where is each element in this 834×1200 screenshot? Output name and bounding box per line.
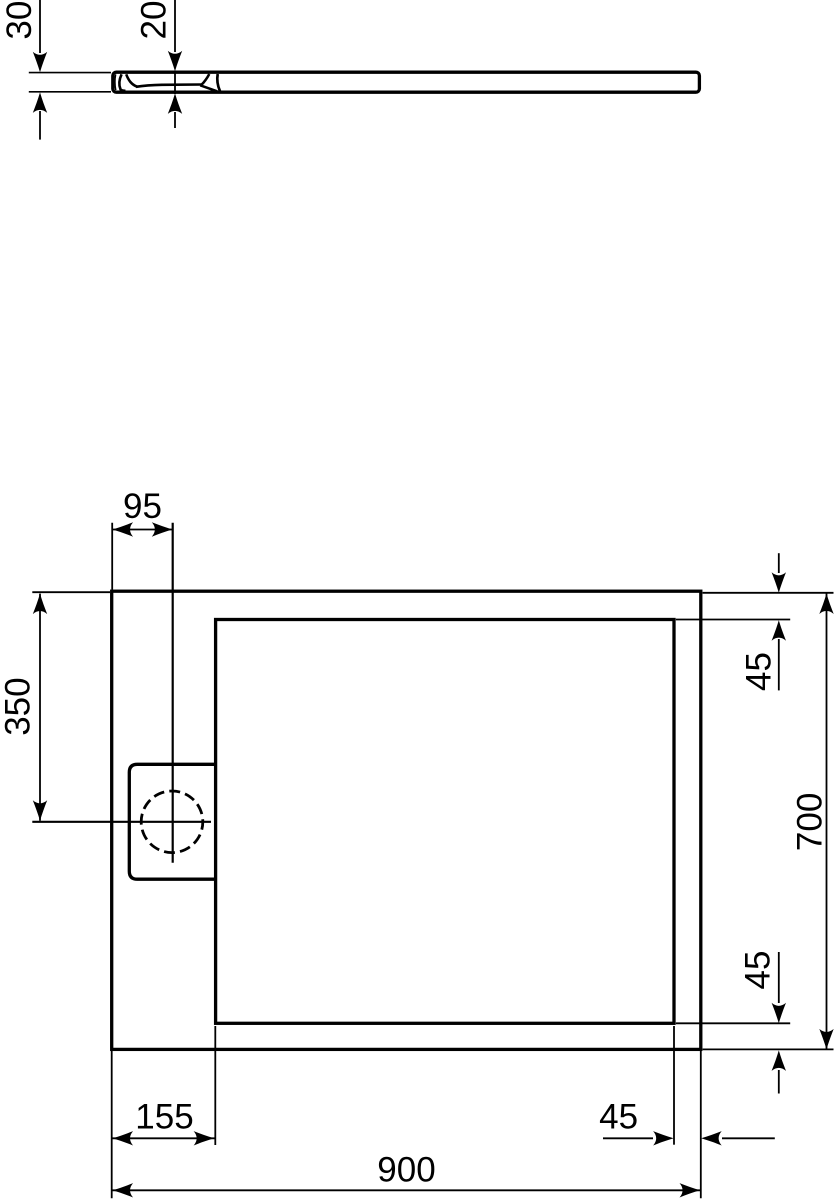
waste centerline horizontal <box>32 821 211 823</box>
side view channel right upper ramp <box>202 74 210 85</box>
svg-text:900: 900 <box>377 1151 435 1190</box>
dimension 30 line lower <box>39 111 41 140</box>
svg-text:95: 95 <box>123 487 162 526</box>
waste dashed circle <box>141 791 203 853</box>
dimension 45 top-right upper line <box>778 553 780 573</box>
extension line bottom-right inner <box>676 1022 790 1024</box>
dimension 45 bottom-right lower line <box>778 1070 780 1094</box>
svg-text:45: 45 <box>740 652 779 691</box>
side view channel right end curve <box>217 74 220 91</box>
extension line 900 left <box>111 1051 113 1198</box>
dimension 900 line <box>112 1189 700 1191</box>
extension line 45-bottom left <box>673 1026 675 1145</box>
dimension 155 line <box>112 1137 214 1139</box>
extension line right edge lower <box>700 1051 702 1198</box>
svg-text:45: 45 <box>739 951 778 990</box>
dimension 20 line through profile <box>174 71 176 94</box>
extension line top-right outer <box>703 592 834 594</box>
plan outer rectangle <box>112 591 701 1049</box>
side view outer profile <box>113 72 700 92</box>
dimension 700 line <box>826 594 828 1050</box>
svg-text:20: 20 <box>135 1 174 40</box>
side view rim inner curve B <box>119 74 125 91</box>
side view rim inner curve A <box>114 74 117 90</box>
side view channel floor <box>136 85 202 87</box>
extension line top-right inner <box>676 619 790 621</box>
plan inner rectangle <box>216 620 674 1024</box>
dimension 45 bottom-right upper line <box>778 952 780 1003</box>
svg-text:155: 155 <box>135 1098 193 1137</box>
waste centerline vertical / 95 right extension <box>172 523 174 863</box>
dimension 30 line upper <box>39 0 41 53</box>
dimension 45 bottom left line <box>603 1137 653 1139</box>
svg-text:350: 350 <box>0 677 37 735</box>
dimension 20 line lower <box>174 112 176 128</box>
extension line bottom-right outer <box>703 1048 834 1050</box>
side view channel left lip <box>126 74 137 86</box>
svg-text:45: 45 <box>599 1098 638 1137</box>
dimension 350 extension top <box>32 591 110 593</box>
svg-text:30: 30 <box>0 1 39 40</box>
waste box <box>129 764 215 879</box>
svg-text:700: 700 <box>791 793 830 851</box>
dimension 45 bottom right line <box>722 1137 775 1139</box>
extension line 155 right <box>214 1026 216 1145</box>
dimension 95 left extension <box>111 523 113 590</box>
side view bottom extension line <box>29 91 111 93</box>
dimension 95 line <box>112 529 173 531</box>
dimension 350 line <box>39 594 41 821</box>
dimension 20 line upper <box>174 0 176 52</box>
dimension 45 top-right lower line <box>778 639 780 690</box>
side view channel right lower ramp <box>200 85 217 91</box>
side view top extension line <box>29 72 111 74</box>
